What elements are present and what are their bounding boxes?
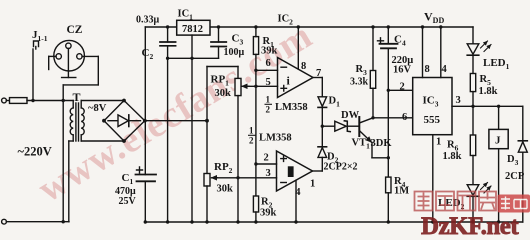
wire pin8 of 555 <box>422 27 424 78</box>
svg-text:2CP: 2CP <box>505 171 525 182</box>
LED2 <box>467 183 491 223</box>
transformer T primary winding <box>69 101 73 222</box>
svg-text:1M: 1M <box>394 186 409 197</box>
transformer core <box>76 103 79 141</box>
wire pin3 net <box>452 105 523 107</box>
svg-text:16V: 16V <box>393 65 412 76</box>
wire ground link <box>168 57 219 59</box>
bridge rectifier <box>102 99 147 143</box>
wire RP feed vertical <box>206 67 208 174</box>
svg-text:2: 2 <box>249 136 254 146</box>
resistor R4 <box>386 158 391 222</box>
svg-text:1: 1 <box>249 126 254 136</box>
resistor R1 <box>253 37 258 55</box>
potentiometer RP1 <box>207 67 249 223</box>
svg-text:DzKF.net: DzKF.net <box>421 213 519 236</box>
resistor R3 <box>370 27 375 118</box>
transformer T secondary winding <box>81 101 84 142</box>
wire bridge+ to RP feed <box>145 120 207 122</box>
diode D1 <box>318 78 327 147</box>
IC3 555 timer <box>413 78 452 135</box>
svg-text:LM358: LM358 <box>275 102 308 113</box>
watermark www.elecfans.com diagonal 1 <box>31 14 320 210</box>
svg-text:39k: 39k <box>260 208 277 219</box>
capacitor C3 <box>211 27 226 58</box>
svg-text:~220V: ~220V <box>18 145 52 159</box>
svg-text:1.8k: 1.8k <box>479 86 498 97</box>
svg-text:LM358: LM358 <box>259 133 292 144</box>
wire AC vertical left <box>62 85 64 222</box>
svg-text:1: 1 <box>310 179 315 190</box>
svg-text:2CP2×2: 2CP2×2 <box>324 162 358 173</box>
wire 220V bottom <box>6 221 69 223</box>
svg-text:30k: 30k <box>217 184 234 195</box>
terminal top (220V input) <box>2 98 7 103</box>
svg-text:7: 7 <box>316 68 321 79</box>
wire secondary top to bridge <box>81 100 124 102</box>
wire pin2 of 555 <box>388 89 412 91</box>
label half1 <box>265 95 273 115</box>
svg-text:7812: 7812 <box>182 24 203 35</box>
svg-text:J: J <box>495 135 501 147</box>
svg-text:25V: 25V <box>119 196 137 207</box>
fuse FU <box>6 98 73 104</box>
svg-text:30k: 30k <box>215 88 232 99</box>
potentiometer RP2 <box>204 174 218 223</box>
wire secondary bottom to bridge <box>81 140 124 142</box>
capacitor C1 <box>136 167 157 222</box>
resistor R6 <box>470 135 475 185</box>
wire pin4 <box>295 180 297 222</box>
svg-text:~8V: ~8V <box>88 103 107 114</box>
socket CZ <box>49 40 99 77</box>
zener DW <box>322 121 358 132</box>
resistor R5 <box>470 74 475 136</box>
svg-text:2: 2 <box>266 105 271 115</box>
junction <box>62 99 65 102</box>
wire pin7 out <box>313 77 322 79</box>
svg-text:2: 2 <box>400 82 405 93</box>
wire pin4 of 555 <box>440 27 442 78</box>
wire pin1 of 555 <box>432 135 434 222</box>
wire pin2 <box>256 163 277 165</box>
svg-text:3DK: 3DK <box>371 138 393 149</box>
svg-text:5: 5 <box>266 77 271 88</box>
wire RP2 wiper to pin3 <box>216 177 277 179</box>
svg-text:1: 1 <box>436 137 441 148</box>
transistor VT1 <box>359 117 388 158</box>
ground rail <box>145 221 523 223</box>
wire gnd drop x167 <box>167 58 169 222</box>
svg-text:4: 4 <box>295 187 301 198</box>
capacitor C2 <box>160 27 176 58</box>
svg-text:CZ: CZ <box>67 24 83 36</box>
svg-text:39k: 39k <box>261 46 278 57</box>
LED1 <box>467 27 491 74</box>
wire unreg vertical x145 <box>144 27 146 175</box>
op-amp U1b <box>277 151 313 191</box>
svg-text:4: 4 <box>442 64 448 75</box>
svg-text:1: 1 <box>266 95 271 105</box>
svg-text:3: 3 <box>266 168 271 179</box>
IC1 7812 regulator <box>177 20 210 35</box>
svg-text:8: 8 <box>425 64 430 75</box>
wire 7812 gnd pin <box>191 35 193 222</box>
svg-text:555: 555 <box>424 114 441 126</box>
op-amp U1a <box>278 58 314 98</box>
terminal bottom <box>2 219 7 224</box>
svg-text:8: 8 <box>301 61 306 72</box>
wire pin8 <box>297 27 299 69</box>
watermark badge <box>498 195 530 213</box>
svg-text:DW: DW <box>341 110 360 121</box>
relay J <box>489 106 508 222</box>
svg-text:6: 6 <box>402 112 407 123</box>
svg-text:3: 3 <box>456 95 461 106</box>
svg-text:3.3k: 3.3k <box>350 77 369 88</box>
top supply rail <box>145 26 473 28</box>
resistor R2 <box>253 196 258 222</box>
diode D3 <box>518 106 527 222</box>
svg-text:0.33μ: 0.33μ <box>136 15 160 26</box>
connector J1-1 <box>31 41 38 102</box>
wire divider chain <box>255 54 257 196</box>
wire pin6 of 555 <box>373 117 413 119</box>
capacitor C4 <box>378 27 398 158</box>
wire RP1 wiper to pin5 <box>247 85 278 87</box>
svg-text:100μ: 100μ <box>224 47 245 58</box>
svg-text:T: T <box>73 90 81 104</box>
diode D2 <box>313 147 327 171</box>
wire pin6 <box>256 69 278 71</box>
label half2 <box>248 126 256 146</box>
watermark chinese red text <box>415 192 530 240</box>
junction <box>62 220 65 223</box>
svg-text:2: 2 <box>264 153 269 164</box>
svg-text:1.8k: 1.8k <box>443 151 462 162</box>
svg-text:6: 6 <box>266 58 271 69</box>
wire CZ right pin down <box>63 56 98 85</box>
